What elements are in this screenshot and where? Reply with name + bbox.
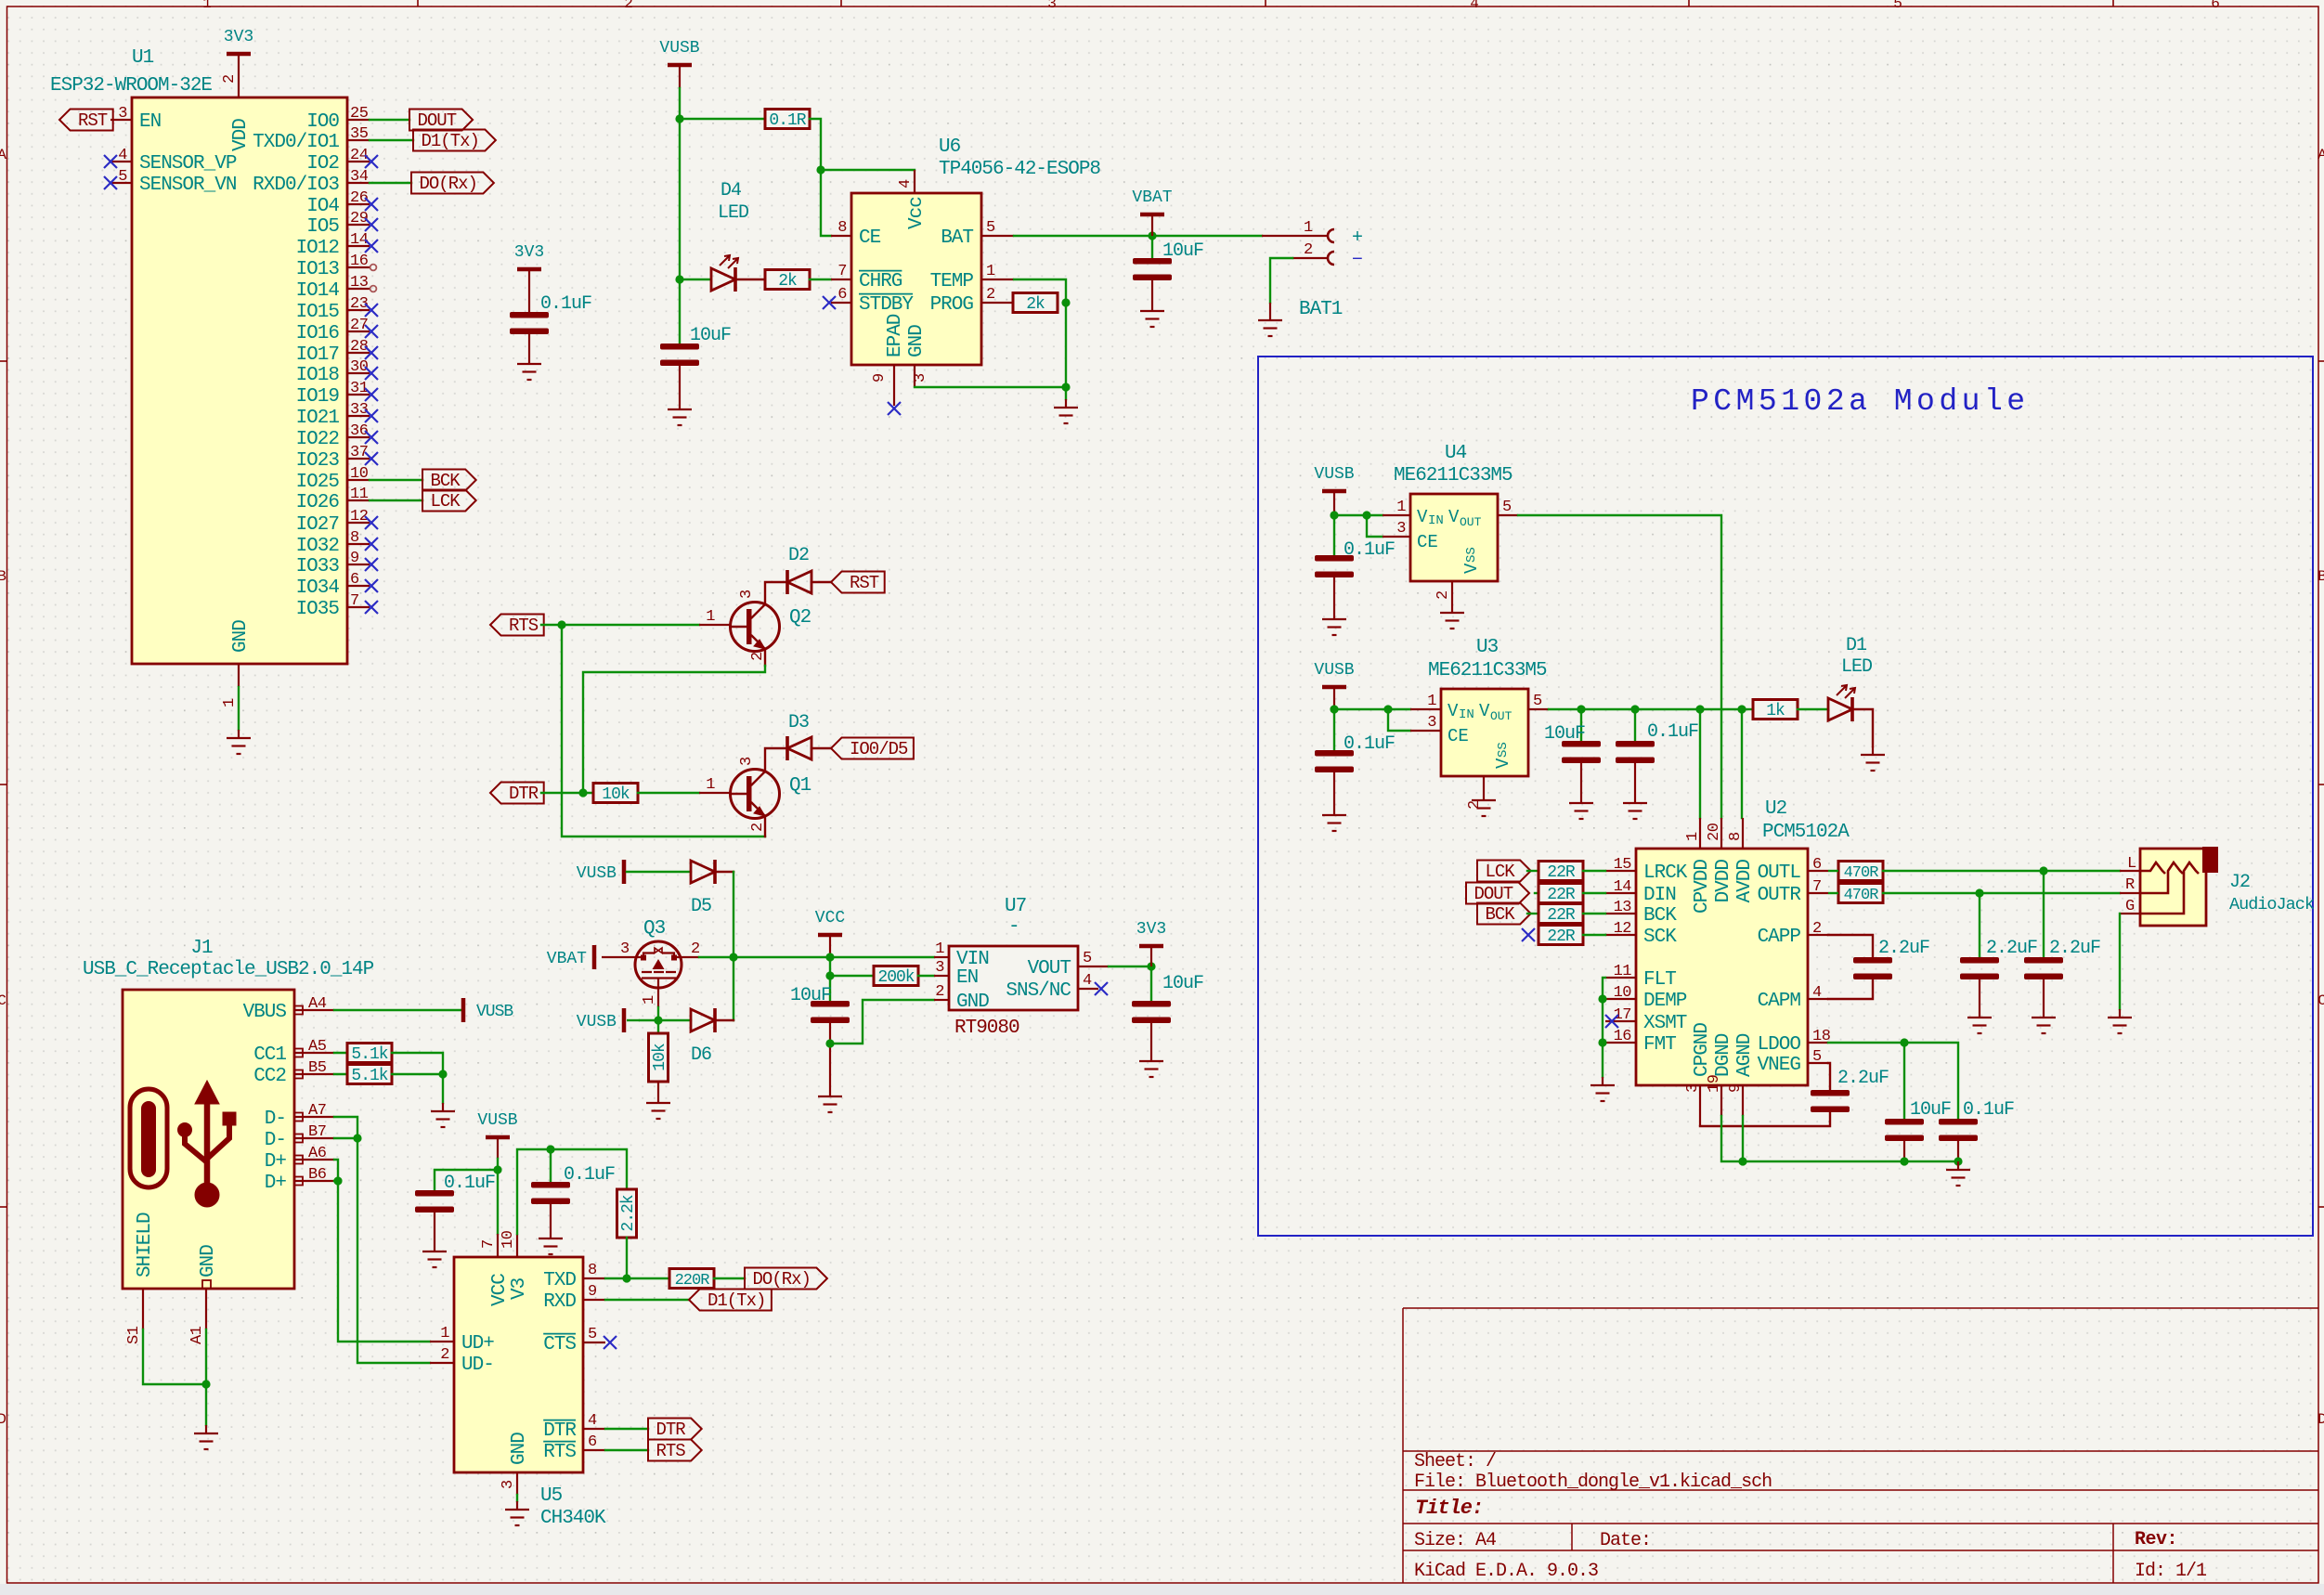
hier label D1(Tx) at U1 xyxy=(413,130,496,151)
no-connect at SCK 22R xyxy=(1522,928,1535,941)
svg-text:ME6211C33M5: ME6211C33M5 xyxy=(1394,465,1513,486)
svg-text:3V3: 3V3 xyxy=(514,243,544,262)
svg-text:GND: GND xyxy=(956,992,989,1013)
ic U7 pin 1 VIN xyxy=(934,956,949,958)
svg-text:A7: A7 xyxy=(308,1102,326,1120)
connector J1 body xyxy=(123,990,294,1289)
capacitor 0.1uF at LDOO xyxy=(1939,1119,1978,1141)
svg-text:USB_C_Receptacle_USB2.0_14P: USB_C_Receptacle_USB2.0_14P xyxy=(83,959,374,980)
capacitor 0.1uF at U4 xyxy=(1333,515,1335,555)
diode D5 xyxy=(691,860,715,884)
svg-text:EN: EN xyxy=(139,111,161,133)
svg-text:A6: A6 xyxy=(308,1145,327,1162)
svg-text:CAPM: CAPM xyxy=(1758,991,1801,1012)
ic U2 pin 19 DGND bottom xyxy=(1720,1085,1722,1116)
svg-text:1: 1 xyxy=(202,0,212,12)
connector BAT1 pin 1 xyxy=(1262,235,1327,237)
wire Q3 gate to VUSB/D6 xyxy=(657,1007,659,1020)
svg-text:Q3: Q3 xyxy=(643,918,666,940)
resistor 2.2k pullup xyxy=(617,1189,637,1238)
connector J1 pin A6 D+ xyxy=(294,1159,334,1161)
svg-text:1: 1 xyxy=(1427,693,1436,710)
svg-text:RTS: RTS xyxy=(543,1442,576,1463)
svg-text:3: 3 xyxy=(1396,520,1406,538)
svg-text:6: 6 xyxy=(588,1433,597,1451)
wire J1 GND to ground xyxy=(205,1329,207,1425)
svg-text:DO(Rx): DO(Rx) xyxy=(752,1269,810,1290)
svg-text:VBAT: VBAT xyxy=(1132,188,1172,207)
svg-text:S1: S1 xyxy=(125,1326,143,1344)
svg-text:IO27: IO27 xyxy=(296,514,339,536)
svg-text:5: 5 xyxy=(1893,0,1902,12)
svg-text:CHRG: CHRG xyxy=(859,271,902,292)
svg-text:AVDD: AVDD xyxy=(1734,860,1756,903)
svg-text:8: 8 xyxy=(837,219,847,237)
ic U2 pin 6 OUTL xyxy=(1808,870,1828,872)
wire VUSB to U3 VIN xyxy=(1334,708,1410,710)
svg-text:D: D xyxy=(2318,1411,2324,1428)
junction VBAT xyxy=(1148,231,1156,240)
svg-text:2: 2 xyxy=(986,286,995,304)
svg-text:D-: D- xyxy=(265,1130,286,1151)
svg-text:VUSB: VUSB xyxy=(577,1013,617,1031)
wire U7 GND to cap ground xyxy=(830,1000,934,1044)
hier label D1(Tx) at U5 xyxy=(689,1290,772,1311)
junction U6 GND xyxy=(1061,383,1070,391)
usb-c connector icon xyxy=(130,1089,167,1187)
svg-text:A: A xyxy=(0,147,6,163)
usb trident icon xyxy=(178,1081,237,1207)
svg-text:10uF: 10uF xyxy=(1162,240,1203,262)
svg-text:IO17: IO17 xyxy=(296,344,339,366)
svg-text:VUSB: VUSB xyxy=(659,39,699,58)
svg-text:IO19: IO19 xyxy=(296,386,340,408)
svg-text:7: 7 xyxy=(350,592,359,610)
svg-text:U2: U2 xyxy=(1765,798,1787,820)
power VUSB at U5 xyxy=(486,1135,510,1140)
wire RTS down to Q1 emitter xyxy=(562,625,765,836)
capacitor 0.1uF at 3V3 xyxy=(528,291,530,312)
connector J1 pin B7 D- xyxy=(294,1137,334,1139)
resistor 2k at CHRG xyxy=(765,270,810,290)
junction OUTR cap xyxy=(1975,888,1983,897)
wire 10k to Q1 base xyxy=(638,792,699,794)
svg-text:2: 2 xyxy=(691,940,700,958)
junction DTR xyxy=(578,788,587,797)
connector J1 pin A4 VBUS xyxy=(294,1009,334,1011)
ground at U3 0.1uF xyxy=(1623,795,1647,819)
diode D6 xyxy=(691,1008,715,1032)
connector J2 pin L xyxy=(2120,870,2140,872)
junction VUSB 0.1R xyxy=(675,114,683,123)
svg-text:EPAD: EPAD xyxy=(885,314,906,357)
svg-text:1: 1 xyxy=(440,1325,449,1342)
ic U2 pin 17 XSMT xyxy=(1605,1020,1636,1022)
svg-text:TXD0/IO1: TXD0/IO1 xyxy=(253,132,339,153)
svg-text:6: 6 xyxy=(1812,856,1822,874)
wire VOUT to 3V3 xyxy=(1109,966,1151,967)
ic U6 pin 1 TEMP xyxy=(981,279,1014,280)
ground at U1 GND xyxy=(227,730,251,754)
resistor 5.1k at CC1 xyxy=(347,1044,392,1063)
connector J2 sleeve xyxy=(2202,847,2218,873)
svg-text:V: V xyxy=(1448,701,1459,721)
junction U4 CE branch xyxy=(1362,511,1370,519)
svg-text:LCK: LCK xyxy=(430,491,461,512)
capacitor 10uF at U3 out xyxy=(1580,709,1582,741)
svg-text:VUSB: VUSB xyxy=(477,1111,517,1130)
ic U7 pin 3 EN xyxy=(934,975,949,977)
ic U6 TP4056 body xyxy=(851,193,981,365)
led D1 xyxy=(1828,697,1852,721)
ic U2 pin 18 LDOO xyxy=(1808,1042,1828,1044)
svg-text:A5: A5 xyxy=(308,1038,327,1056)
power VUSB at U4 xyxy=(1322,489,1346,494)
svg-text:5: 5 xyxy=(588,1326,597,1343)
ic U6 pin 5 BAT xyxy=(981,235,1014,237)
ic U1 pin 8 IO32 xyxy=(347,543,370,545)
svg-text:5: 5 xyxy=(1812,1048,1822,1066)
ic U1 pin 28 IO17 xyxy=(347,352,370,354)
ic U3 ME6211C33M5 body xyxy=(1441,689,1528,776)
resistor 10k pulldown at Q3 gate xyxy=(657,1020,659,1033)
wire 22R to DIN xyxy=(1583,892,1605,894)
svg-text:LED: LED xyxy=(1841,656,1872,678)
svg-text:RTS: RTS xyxy=(656,1441,685,1461)
ic U1 pin 10 IO25 xyxy=(347,479,370,481)
wire junction to ground xyxy=(1065,387,1067,399)
wire BCK to 22R xyxy=(1527,913,1539,914)
ic U2 pin 4 CAPM xyxy=(1808,998,1828,1000)
ic U3 pin 5 VOUT xyxy=(1528,708,1549,710)
svg-text:Sheet: /: Sheet: / xyxy=(1414,1451,1496,1472)
svg-text:IO16: IO16 xyxy=(296,323,340,344)
svg-text:TXD: TXD xyxy=(543,1270,576,1291)
junction 3V3 out xyxy=(1147,962,1155,970)
ic U2 pin 1 CPVDD top xyxy=(1699,818,1701,849)
svg-text:8: 8 xyxy=(1727,832,1745,841)
svg-text:D6: D6 xyxy=(691,1044,711,1066)
wire 2k to CHRG xyxy=(810,279,831,280)
ic U7 pin 2 GND xyxy=(934,999,949,1001)
ic U5 pin 5 CTS xyxy=(583,1342,605,1343)
hier label RTS at U5 xyxy=(648,1440,702,1461)
ic U1 pin 11 IO26 xyxy=(347,499,370,501)
svg-text:IO0: IO0 xyxy=(306,111,339,133)
svg-text:TP4056-42-ESOP8: TP4056-42-ESOP8 xyxy=(939,159,1100,180)
svg-text:J2: J2 xyxy=(2229,872,2250,893)
svg-text:3: 3 xyxy=(1047,0,1057,12)
svg-text:35: 35 xyxy=(350,125,369,143)
svg-text:Title:: Title: xyxy=(1415,1497,1483,1520)
svg-text:10: 10 xyxy=(350,465,369,483)
ic U1 ESP32-WROOM-32E body xyxy=(132,97,347,664)
wire VBUS to VUSB xyxy=(334,1009,461,1011)
wire 0.1R to U6 VCC and CE xyxy=(810,119,915,170)
wire VUSB to 0.1R xyxy=(680,118,765,120)
resistor 1k at D1 xyxy=(1753,700,1798,720)
ic U5 pin 2 UD- xyxy=(430,1362,454,1364)
ic U1 pin 5 SENSOR_VN xyxy=(110,182,132,184)
svg-text:VBUS: VBUS xyxy=(243,1002,287,1023)
svg-text:8: 8 xyxy=(350,529,359,547)
wire CC1 to 5.1k xyxy=(334,1052,347,1054)
ic U1 pin 31 IO19 xyxy=(347,394,370,396)
ic U5 pin 1 UD+ xyxy=(430,1341,454,1342)
wire U6 GND to junction xyxy=(915,386,1066,388)
wire 22R to SCK xyxy=(1583,934,1605,936)
svg-text:3: 3 xyxy=(738,757,756,766)
svg-text:IO4: IO4 xyxy=(306,196,339,217)
svg-text:U4: U4 xyxy=(1445,443,1467,464)
svg-text:0.1uF: 0.1uF xyxy=(1963,1099,2014,1121)
svg-text:Id: 1/1: Id: 1/1 xyxy=(2135,1561,2207,1582)
ic U6 pin 4 VCC stub xyxy=(914,170,915,193)
wire TXD to 220R xyxy=(605,1277,669,1279)
ic U1 pin 37 IO23 xyxy=(347,458,370,460)
capacitor 2.2uF at CAPP/CAPM xyxy=(1828,935,1873,957)
transistor Q1 emitter wire xyxy=(764,816,766,836)
svg-text:VUSB: VUSB xyxy=(476,1003,513,1021)
svg-text:2: 2 xyxy=(935,983,944,1001)
svg-text:9: 9 xyxy=(1727,1083,1745,1093)
svg-text:2: 2 xyxy=(1304,241,1313,259)
svg-text:0.1uF: 0.1uF xyxy=(444,1173,495,1194)
wire DTR to label xyxy=(605,1428,648,1430)
svg-text:2: 2 xyxy=(221,74,239,84)
svg-text:PCM5102a Module: PCM5102a Module xyxy=(1691,384,2030,419)
svg-text:11: 11 xyxy=(350,486,369,503)
svg-text:2: 2 xyxy=(624,0,633,12)
svg-text:1: 1 xyxy=(221,698,239,707)
resistor 200k xyxy=(874,966,918,986)
ic U4 ME6211C33M5 body xyxy=(1410,494,1498,581)
svg-text:15: 15 xyxy=(1614,856,1632,874)
wire VUSB to U4 VIN xyxy=(1334,514,1383,516)
svg-text:D+: D+ xyxy=(265,1151,287,1173)
svg-text:IO13: IO13 xyxy=(296,259,340,280)
wire VUSB down to LED branch xyxy=(679,88,681,279)
svg-text:Q2: Q2 xyxy=(789,607,811,629)
resistor 22R at DIN xyxy=(1539,884,1583,903)
svg-text:22R: 22R xyxy=(1547,863,1576,882)
junction CE branch xyxy=(816,165,824,174)
svg-text:CE: CE xyxy=(1448,726,1469,746)
junction VCC VIN xyxy=(825,953,834,961)
ic U3 pin 3 CE xyxy=(1410,730,1441,732)
svg-text:File: Bluetooth_dongle_v1.kica: File: Bluetooth_dongle_v1.kicad_sch xyxy=(1414,1472,1772,1493)
connector J1 pin S1 SHIELD stub xyxy=(142,1289,144,1329)
ic U2 pin 3 CPGND bottom xyxy=(1699,1085,1701,1126)
transistor Q2 emitter wire xyxy=(764,649,766,666)
ic U2 pin 7 OUTR xyxy=(1808,892,1828,894)
svg-text:34: 34 xyxy=(350,168,369,186)
svg-text:10: 10 xyxy=(500,1230,517,1249)
ic U5 pin 7 VCC top xyxy=(497,1234,499,1257)
ic U1 pin 9 IO33 xyxy=(347,564,370,565)
svg-text:D1(Tx): D1(Tx) xyxy=(421,131,478,151)
junction ground rail 10uF xyxy=(1900,1157,1908,1165)
transistor Q2 xyxy=(699,624,730,626)
capacitor 10uF at LDOO xyxy=(1903,1043,1905,1119)
ic U2 pin 9 AGND bottom xyxy=(1742,1085,1744,1116)
svg-text:AGND: AGND xyxy=(1734,1033,1756,1077)
wire AGND join xyxy=(1742,1116,1744,1161)
power 3V3 at C decoupling xyxy=(517,267,541,272)
ground at OUTR cap xyxy=(1967,1009,1992,1033)
led D4 xyxy=(680,279,711,280)
wire 220R to DO(Rx) xyxy=(714,1277,745,1279)
power VCC xyxy=(818,933,842,938)
svg-text:SS: SS xyxy=(1496,742,1511,758)
wire VUSB to U5 VCC xyxy=(497,1159,499,1234)
svg-text:2k: 2k xyxy=(1026,295,1045,314)
junction U3 VIN xyxy=(1330,705,1338,713)
wire DTR to 10k xyxy=(541,792,593,794)
svg-text:DTR: DTR xyxy=(543,1420,577,1442)
wire D+ B6 join xyxy=(334,1180,338,1182)
svg-text:Size: A4: Size: A4 xyxy=(1414,1530,1496,1551)
diode D2 xyxy=(787,570,811,594)
svg-text:7: 7 xyxy=(480,1239,498,1249)
svg-text:U5: U5 xyxy=(540,1485,563,1507)
svg-text:9: 9 xyxy=(350,550,359,567)
hier label RST at D2 xyxy=(831,572,885,593)
ic U2 pin 16 FMT xyxy=(1605,1042,1636,1044)
ground at OUTL cap xyxy=(2032,1009,2056,1033)
frame zone ticks left xyxy=(0,360,7,362)
svg-text:STDBY: STDBY xyxy=(859,294,914,316)
svg-text:A: A xyxy=(2318,147,2324,163)
svg-text:Rev:: Rev: xyxy=(2135,1529,2177,1550)
svg-text:R: R xyxy=(2125,876,2135,894)
ground at BAT1 xyxy=(1258,312,1282,336)
wire D2 to RST label xyxy=(811,581,831,583)
wire LCK to 22R xyxy=(1527,870,1539,872)
svg-text:U1: U1 xyxy=(132,47,154,69)
svg-text:C: C xyxy=(0,992,6,1009)
transistor Q2 collector wire xyxy=(765,582,785,604)
svg-text:10: 10 xyxy=(1614,984,1632,1002)
hier label DOUT at U1 xyxy=(409,110,473,131)
hier label LCK at U1 xyxy=(422,490,476,512)
junction RTS xyxy=(557,620,565,629)
svg-text:IO25: IO25 xyxy=(296,472,340,493)
power VUSB at U3 xyxy=(1322,685,1346,690)
svg-text:LCK: LCK xyxy=(1485,862,1515,882)
junction PROG 2k xyxy=(1061,298,1070,306)
svg-text:10k: 10k xyxy=(602,785,630,804)
svg-text:LDOO: LDOO xyxy=(1758,1034,1801,1056)
sheet box PCM5102a Module xyxy=(1258,357,2313,1236)
svg-text:AudioJack: AudioJack xyxy=(2229,895,2315,914)
ic U2 pin 11 FLT xyxy=(1605,977,1636,979)
ic U1 pin 35 TXD0/IO1 xyxy=(347,139,370,141)
svg-text:VUSB: VUSB xyxy=(1314,465,1354,484)
wire U1 IO26 to LCK xyxy=(370,499,422,501)
power VBAT at Q3 xyxy=(592,945,597,969)
svg-text:IO12: IO12 xyxy=(296,238,340,259)
junction J1 grounds xyxy=(201,1380,210,1388)
svg-text:13: 13 xyxy=(350,274,369,292)
ic U5 pin 6 RTS xyxy=(583,1449,605,1451)
svg-text:3: 3 xyxy=(738,590,756,599)
svg-text:SS: SS xyxy=(1464,547,1479,563)
svg-text:5: 5 xyxy=(1083,950,1092,967)
wire RTS to label xyxy=(605,1449,648,1451)
wire D- A7 to UD- xyxy=(334,1117,430,1363)
ic U1 pin 24 IO2 xyxy=(347,161,370,162)
ground at 3V3 cap xyxy=(1139,1053,1163,1077)
svg-text:D+: D+ xyxy=(265,1173,287,1194)
svg-text:5.1k: 5.1k xyxy=(351,1045,387,1064)
wire CC2 to 5.1k xyxy=(334,1073,347,1075)
svg-text:13: 13 xyxy=(1614,899,1632,916)
svg-text:RXD0/IO3: RXD0/IO3 xyxy=(253,175,339,196)
wire D1 to ground xyxy=(1852,709,1873,746)
svg-text:7: 7 xyxy=(1812,878,1822,896)
power VUSB at D6 xyxy=(622,1008,627,1032)
svg-text:FMT: FMT xyxy=(1643,1034,1676,1056)
wire TEMP to PROG junction xyxy=(1014,279,1066,302)
ic U2 pin 13 BCK xyxy=(1605,913,1636,914)
ground at U3 cap xyxy=(1322,807,1346,831)
svg-text:IO5: IO5 xyxy=(306,216,339,238)
svg-text:0.1R: 0.1R xyxy=(769,111,806,130)
svg-text:5: 5 xyxy=(986,219,995,237)
junction VCC cap ground xyxy=(825,1039,834,1047)
svg-text:IO2: IO2 xyxy=(306,153,339,175)
resistor 22R at LRCK xyxy=(1539,862,1583,881)
junction TXD 2.2k xyxy=(622,1274,630,1282)
svg-text:7: 7 xyxy=(837,263,847,280)
svg-text:1: 1 xyxy=(706,776,715,794)
wire 22R to LRCK xyxy=(1583,870,1605,872)
svg-text:D-: D- xyxy=(265,1109,286,1130)
wire DGND to ground rail xyxy=(1721,1116,1958,1161)
svg-text:10uF: 10uF xyxy=(790,985,831,1006)
svg-text:KiCad E.D.A. 9.0.3: KiCad E.D.A. 9.0.3 xyxy=(1414,1561,1598,1582)
svg-text:4: 4 xyxy=(118,147,127,164)
hier label RTS xyxy=(490,615,544,636)
power VBAT xyxy=(1140,213,1164,217)
junction U4 VIN xyxy=(1330,511,1338,519)
ic U4 pin 1 VIN xyxy=(1383,514,1410,516)
wire 2.2k to TXD net xyxy=(626,1238,628,1278)
svg-text:B: B xyxy=(2318,568,2324,585)
svg-text:SHIELD: SHIELD xyxy=(135,1212,156,1277)
connector J1 pin A7 D- xyxy=(294,1116,334,1118)
ic U6 pin 2 PROG xyxy=(981,302,1013,304)
svg-text:SCK: SCK xyxy=(1643,927,1677,948)
ic U1 pin 12 IO27 xyxy=(347,522,370,524)
ic U6 pin 6 STDBY xyxy=(831,302,851,304)
wire U3 VOUT rail xyxy=(1549,708,1742,710)
wire jack G to ground xyxy=(2119,914,2121,1009)
no-connect at XSMT xyxy=(1605,1015,1618,1028)
svg-text:9: 9 xyxy=(588,1283,597,1301)
ic U5 pin 10 V3 top xyxy=(516,1234,518,1257)
svg-text:OUTR: OUTR xyxy=(1758,885,1802,906)
connector BAT1 pin 2 xyxy=(1292,257,1327,259)
ground at VUSB 10uF xyxy=(668,401,692,425)
svg-text:DEMP: DEMP xyxy=(1643,991,1687,1012)
svg-text:OUT: OUT xyxy=(1460,515,1482,529)
capacitor 2.2uF at OUTR xyxy=(1979,893,1980,957)
junction AVDD branch xyxy=(1737,705,1746,713)
ground at U5 xyxy=(505,1501,529,1525)
svg-text:IO34: IO34 xyxy=(296,577,340,599)
